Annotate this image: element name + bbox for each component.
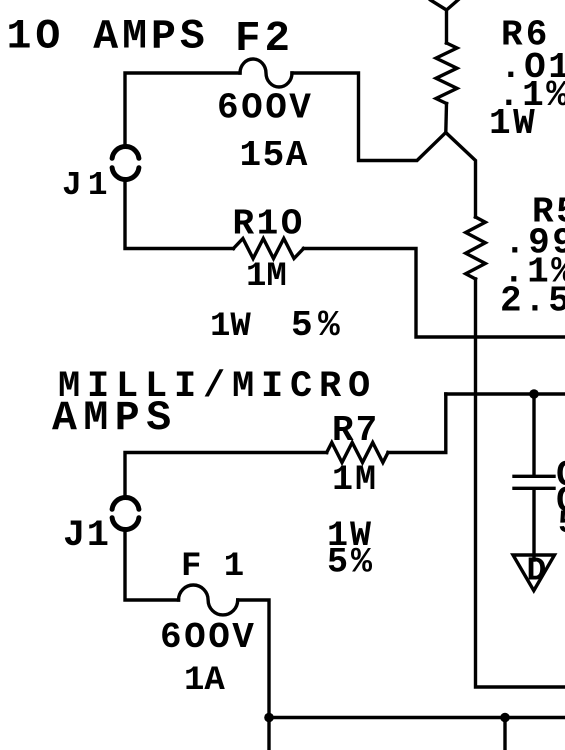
svg-text:J1: J1 — [62, 167, 114, 204]
common D triangle symbol — [513, 555, 555, 591]
svg-text:R1O: R1O — [233, 204, 305, 245]
svg-text:D: D — [527, 553, 547, 590]
junction dot bottom bus left — [264, 713, 274, 723]
connector J1 upper jack — [112, 146, 139, 179]
fuse F2 — [240, 59, 292, 87]
svg-text:5: 5 — [558, 505, 565, 542]
resistor R10 — [233, 239, 303, 259]
svg-text:AMPS: AMPS — [52, 395, 178, 442]
wire J1 lower down to fuse F1 — [125, 532, 179, 600]
svg-text:1W: 1W — [210, 308, 251, 346]
svg-text:1M: 1M — [332, 460, 378, 500]
resistor R5 — [466, 217, 486, 279]
wire fuse F1 down to bottom bus — [238, 600, 269, 750]
junction dot bottom bus right — [500, 713, 510, 723]
junction dot at capacitor tap — [529, 389, 539, 399]
svg-text:1W: 1W — [489, 103, 537, 144]
wire J1 upper to R10 — [125, 182, 233, 249]
svg-text:R7: R7 — [332, 410, 379, 451]
svg-text:1M: 1M — [246, 258, 287, 296]
wire R7 up to cap bus — [388, 394, 446, 453]
svg-text:15A: 15A — [240, 135, 309, 176]
wire J1 lower to R7 — [125, 453, 327, 496]
connector J1 lower jack — [112, 497, 139, 529]
wire R10 right to bus — [304, 249, 565, 338]
svg-text:1A: 1A — [184, 662, 225, 700]
wire stub below bottom bus — [503, 718, 506, 750]
wire node under R6 down to R5 — [446, 133, 476, 218]
capacitor lead to common symbol — [532, 490, 535, 560]
svg-text:6OOV: 6OOV — [160, 617, 256, 658]
capacitor lead from node — [532, 394, 535, 474]
svg-text:1O AMPS: 1O AMPS — [7, 14, 209, 61]
svg-text:5%: 5% — [291, 305, 345, 346]
svg-text:6OOV: 6OOV — [217, 88, 313, 129]
fuse F1 — [179, 585, 238, 615]
wire cap bus to right edge — [446, 392, 565, 395]
bottom bus wire — [269, 716, 565, 719]
svg-text:F 1: F 1 — [181, 548, 245, 586]
capacitor plates — [514, 476, 554, 488]
wire right-side vertical to bottom right corner — [476, 279, 565, 687]
svg-text:5%: 5% — [327, 543, 375, 583]
svg-text:F2: F2 — [235, 15, 294, 63]
svg-text:J1: J1 — [63, 515, 110, 557]
svg-text:2.5: 2.5 — [500, 281, 565, 322]
resistor R7 — [327, 443, 388, 463]
wire J1 upper to fuse F2 — [125, 73, 240, 144]
resistor R6 — [444, 104, 448, 133]
wire fuse F2 to node under R6 — [292, 73, 446, 161]
